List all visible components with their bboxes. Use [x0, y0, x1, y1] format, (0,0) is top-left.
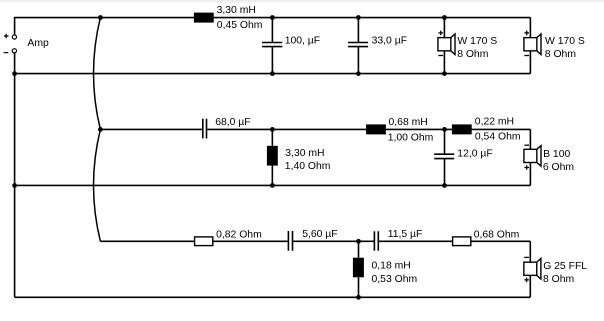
wire: curved bus top junction to midrange branch [94, 18, 101, 130]
capacitor 11,5 µF (series) [374, 229, 422, 251]
speaker G 25 FFL (8 Ohm) [524, 241, 587, 297]
svg-text:68,0 µF: 68,0 µF [215, 117, 250, 128]
amp - label [4, 52, 9, 54]
node: amp - on return rail [12, 71, 17, 76]
wire: top rail [15, 17, 531, 19]
node: midrange rail / L2 [270, 127, 275, 132]
svg-text:0,45 Ohm: 0,45 Ohm [217, 20, 263, 31]
top window border bar [0, 0, 604, 2]
svg-text:G 25 FFL: G 25 FFL [543, 261, 587, 272]
resistor 0,68 Ohm (series) [453, 229, 520, 245]
svg-text:0,18 mH: 0,18 mH [372, 261, 411, 272]
node: tweeter rail / L5 [356, 239, 361, 244]
svg-text:W 170 S: W 170 S [457, 36, 497, 47]
capacitor 68,0 µF (series) [203, 117, 251, 138]
svg-text:0,68 mH: 0,68 mH [389, 117, 428, 128]
svg-text:0,68 Ohm: 0,68 Ohm [474, 229, 520, 240]
svg-text:8 Ohm: 8 Ohm [545, 49, 576, 60]
svg-text:Amp: Amp [27, 38, 49, 49]
inductor 0,68 mH 1,00 Ohm (series) [366, 117, 433, 143]
capacitor 12,0 µF (shunt) [434, 129, 493, 185]
amp - terminal [12, 49, 16, 53]
node: top rail / C1 [270, 15, 275, 20]
node: bottom of C2 on return rail [356, 71, 361, 76]
wire: left drop from top-left corner to + terminal [14, 17, 16, 35]
node: L2 bottom on mid return rail [270, 183, 275, 188]
capacitor 33,0 µF (shunt) [348, 18, 407, 74]
svg-text:0,22 mH: 0,22 mH [475, 117, 514, 128]
svg-text:5,60 µF: 5,60 µF [302, 229, 337, 240]
wire: tweeter branch rail [100, 240, 530, 242]
wire: woofer return rail [15, 73, 531, 75]
svg-text:B 100: B 100 [543, 149, 570, 160]
wire: midrange branch rail [100, 128, 530, 130]
node: top rail / C2 [356, 15, 361, 20]
svg-text:12,0 µF: 12,0 µF [457, 148, 492, 159]
node: return rail / speaker #1 [442, 71, 447, 76]
wire: curved bus midrange branch to tweeter branch [94, 129, 101, 241]
svg-text:1,00 Ohm: 1,00 Ohm [388, 132, 434, 143]
wire: midrange return rail [15, 184, 531, 186]
svg-text:1,40 Ohm: 1,40 Ohm [285, 161, 331, 172]
svg-text:100, µF: 100, µF [285, 36, 320, 47]
speaker W 170 S #2 (8 Ohm) [524, 18, 585, 74]
node: bottom of C1 on return rail [270, 71, 275, 76]
svg-text:0,54 Ohm: 0,54 Ohm [475, 132, 521, 143]
inductor 0,22 mH 0,54 Ohm (series) [452, 117, 521, 143]
svg-text:0,53 Ohm: 0,53 Ohm [372, 274, 418, 285]
node: junction top rail / curve bus [98, 15, 103, 20]
svg-text:0,82 Ohm: 0,82 Ohm [216, 229, 262, 240]
svg-text:33,0 µF: 33,0 µF [372, 36, 407, 47]
speaker B 100 (6 Ohm) [524, 129, 574, 185]
svg-text:3,30 mH: 3,30 mH [217, 5, 256, 16]
amp + terminal [12, 35, 16, 39]
svg-text:11,5 µF: 11,5 µF [388, 229, 423, 240]
wire: left vertical bus from - terminal down to bottom-left corner [14, 53, 16, 297]
node: left bus on mid return rail [12, 183, 17, 188]
node: top rail / speaker W170S #1 [442, 15, 447, 20]
node: midrange rail / C4 [442, 127, 447, 132]
capacitor 100, µF (shunt) [262, 18, 320, 74]
node: C4 bottom on mid return rail [442, 183, 447, 188]
node: L5 bottom on tweeter return rail [356, 295, 361, 300]
inductor 0,18 mH 0,53 Ohm (shunt) [353, 241, 417, 297]
inductor 3,30 mH 1,40 Ohm (shunt) [267, 129, 331, 185]
amp + label [4, 34, 9, 39]
capacitor 5,60 µF (series) [288, 229, 337, 251]
node: midrange branch start [98, 127, 103, 132]
wire: tweeter return rail [15, 296, 531, 298]
resistor 0,82 Ohm (series) [195, 229, 262, 245]
svg-text:8 Ohm: 8 Ohm [543, 274, 574, 285]
svg-text:W 170 S: W 170 S [545, 36, 585, 47]
svg-text:8 Ohm: 8 Ohm [457, 49, 488, 60]
svg-text:6 Ohm: 6 Ohm [543, 162, 574, 173]
svg-text:3,30 mH: 3,30 mH [285, 148, 324, 159]
inductor 3,30 mH 0,45 Ohm (series, woofer branch) [194, 13, 214, 23]
speaker W 170 S #1 (8 Ohm) [438, 18, 497, 74]
